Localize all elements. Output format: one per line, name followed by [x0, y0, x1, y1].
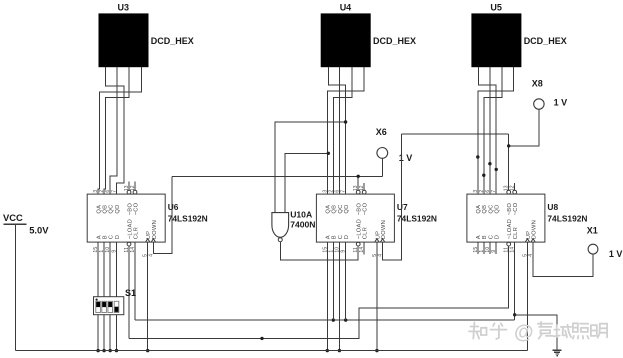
stub U8 ~CO — [514, 183, 516, 190]
svg-text:DCD_HEX: DCD_HEX — [373, 36, 416, 46]
svg-text:DCD_HEX: DCD_HEX — [151, 36, 194, 46]
svg-text:U10A: U10A — [290, 210, 312, 220]
wire U8 DOWN to X1 — [533, 242, 593, 276]
junction X8 net at U8 ~BO — [507, 144, 510, 147]
svg-text:QD: QD — [115, 204, 121, 213]
svg-text:C: C — [338, 235, 344, 239]
junction U6 C on bus — [109, 349, 112, 352]
wire X6 stem — [381, 158, 383, 176]
voltage probe X8 — [532, 79, 567, 110]
wire U6 DOWN hook — [153, 176, 172, 253]
svg-text:X6: X6 — [376, 127, 387, 137]
wire U6 UP to bus — [147, 242, 149, 351]
stub U7 ~CO — [363, 183, 365, 190]
junction U6 D on bus — [115, 349, 118, 352]
svg-text:CLR: CLR — [513, 227, 519, 239]
counter U6 74LS192N — [87, 185, 208, 257]
svg-text:U4: U4 — [340, 3, 352, 13]
stub U8 B — [483, 242, 485, 254]
wire ~LOAD net H2 — [129, 246, 509, 338]
wire NAND input B from U7 QA — [285, 153, 328, 212]
svg-text:CLR: CLR — [363, 227, 369, 239]
stub U7 CLR — [363, 242, 365, 255]
wire U6 ~LOAD down — [128, 246, 130, 338]
junction U7 UP on bus — [375, 349, 378, 352]
svg-text:1 V: 1 V — [609, 249, 623, 259]
wire U3 pin2 to U6 QC — [110, 67, 117, 194]
wire U7 UP to bus — [376, 242, 378, 351]
svg-text:1 V: 1 V — [399, 153, 413, 163]
svg-text:S1: S1 — [125, 288, 136, 298]
svg-text:4: 4 — [148, 254, 154, 257]
svg-text:@: @ — [514, 322, 534, 344]
wire U5 pin3 to U8 QB — [484, 67, 502, 194]
wire to ground — [515, 315, 558, 350]
junction U8 QB column — [482, 174, 485, 177]
watermark zhihu logo text — [469, 322, 607, 344]
svg-text:QB: QB — [103, 205, 109, 214]
junction U6 B on bus — [102, 349, 105, 352]
junction U8 QA column — [476, 155, 479, 158]
wire U8 UP to bus — [526, 242, 528, 351]
svg-text:B: B — [103, 235, 109, 239]
junction U7 B on H1 — [332, 318, 335, 321]
junction U7 C on bus — [338, 349, 341, 352]
stub U6 ~CO — [134, 182, 136, 191]
voltage probe X1 — [587, 225, 623, 259]
wire U3 pin3 to U6 QB — [104, 67, 129, 194]
wire net X8 horizontal — [402, 133, 509, 135]
svg-text:B: B — [482, 235, 488, 239]
wire U6 A through S1 to bus — [97, 242, 99, 351]
svg-text:DOWN: DOWN — [152, 220, 158, 239]
ground symbol — [553, 350, 562, 355]
nand gate U10A 7400N — [272, 210, 316, 242]
display U3 DCD_HEX — [99, 3, 194, 68]
wire NAND input A from U7 QD — [275, 122, 346, 213]
wire U6 B through S1 to bus — [103, 242, 105, 351]
stub U8 D — [495, 242, 497, 254]
svg-text:U8: U8 — [547, 202, 558, 212]
svg-text:DCD_HEX: DCD_HEX — [524, 36, 567, 46]
voltage probe X6 — [376, 127, 413, 163]
junction NAND inB on U7 QA column — [327, 152, 330, 155]
junction NAND inA on U7 QD column — [344, 120, 347, 123]
wire net X6 horizontal — [172, 175, 382, 177]
wire U4 pin4 to U7 QA — [327, 67, 364, 194]
wire U3 pin4 to U6 QA — [98, 67, 142, 194]
svg-text:U7: U7 — [397, 202, 408, 212]
svg-text:QC: QC — [338, 204, 344, 213]
wire U5 pin4 to U8 QA — [478, 67, 514, 194]
svg-text:D: D — [344, 235, 350, 239]
stub U6 ~BO — [128, 182, 130, 191]
counter U8 74LS192N — [467, 185, 588, 257]
wire U3 pin1 to U6 QD — [106, 67, 124, 194]
wire U7 B to H1 — [332, 242, 334, 320]
display U4 DCD_HEX — [321, 3, 416, 68]
power source VCC 5.0V — [3, 212, 49, 235]
svg-text:C: C — [488, 235, 494, 239]
wire U7 DOWN hook — [383, 134, 402, 260]
svg-text:~CO: ~CO — [133, 202, 139, 215]
junction U6 UP on bus — [146, 349, 149, 352]
svg-text:DOWN: DOWN — [381, 220, 387, 239]
svg-text:5.0V: 5.0V — [29, 225, 49, 236]
svg-text:DOWN: DOWN — [532, 220, 538, 239]
wire U4 pin2 to U7 QC — [338, 67, 340, 194]
counter U7 74LS192N — [316, 185, 437, 257]
svg-text:74LS192N: 74LS192N — [168, 213, 208, 223]
svg-text:CLR: CLR — [133, 227, 139, 239]
wire U7 ~BO stem — [357, 176, 359, 190]
svg-text:D: D — [115, 235, 121, 239]
junction ~LOAD net segment — [260, 337, 263, 340]
svg-text:VCC: VCC — [3, 212, 23, 223]
wire VCC to bus — [14, 224, 16, 350]
wire U7 D to H1 — [345, 242, 347, 320]
wire U8 ~BO stem — [508, 134, 510, 190]
svg-text:QD: QD — [344, 204, 350, 213]
svg-text:74LS192N: 74LS192N — [547, 213, 587, 223]
wire U7 A to VCC bus — [326, 242, 328, 351]
svg-text:QB: QB — [332, 205, 338, 214]
junction U7 A on bus — [326, 349, 329, 352]
stub U8 A — [477, 242, 479, 254]
dip switch S1 — [94, 288, 137, 315]
svg-text:QB: QB — [482, 205, 488, 214]
svg-text:D: D — [495, 235, 501, 239]
wire U6 C through S1 to bus — [109, 242, 111, 351]
svg-text:~CO: ~CO — [363, 202, 369, 215]
svg-text:C: C — [109, 235, 115, 239]
wire U8 CLR down — [514, 242, 516, 320]
wire X8 stem — [509, 109, 539, 146]
junction U8 QD column — [495, 168, 498, 171]
wire U6 D through S1 to bus — [116, 242, 118, 351]
svg-text:QC: QC — [488, 204, 494, 213]
junction U6 A on bus — [96, 349, 99, 352]
wire NAND output to U7 ~LOAD — [280, 242, 358, 260]
wire U4 pin1 to U7 QD — [328, 67, 345, 194]
svg-text:74LS192N: 74LS192N — [397, 213, 437, 223]
wire U7 C to VCC bus — [338, 242, 340, 351]
svg-text:~CO: ~CO — [513, 202, 519, 215]
junction U8 QC column — [488, 162, 491, 165]
wire CLR net H1 — [135, 319, 515, 321]
svg-text:U3: U3 — [118, 3, 130, 13]
svg-text:B: B — [332, 235, 338, 239]
wire U6 CLR down — [134, 242, 136, 320]
svg-text:7400N: 7400N — [290, 220, 315, 230]
svg-text:X8: X8 — [532, 79, 543, 89]
junction X6 net at U7 ~BO — [357, 175, 360, 178]
wire VCC bus — [15, 350, 527, 352]
stub U8 C — [489, 242, 491, 254]
junction U7 D on H1 — [344, 318, 347, 321]
wire U4 pin3 to U7 QB — [333, 67, 352, 194]
display U5 DCD_HEX — [471, 3, 566, 68]
svg-text:U5: U5 — [490, 3, 502, 13]
wire U5 pin2 to U8 QC — [489, 67, 491, 194]
svg-text:X1: X1 — [587, 225, 598, 235]
junction ground tap on U8 CLR — [513, 313, 516, 316]
wire U5 pin1 to U8 QD — [478, 67, 496, 194]
svg-text:QC: QC — [109, 204, 115, 213]
svg-text:U6: U6 — [168, 202, 179, 212]
svg-text:QD: QD — [495, 204, 501, 213]
svg-text:1 V: 1 V — [554, 97, 568, 107]
